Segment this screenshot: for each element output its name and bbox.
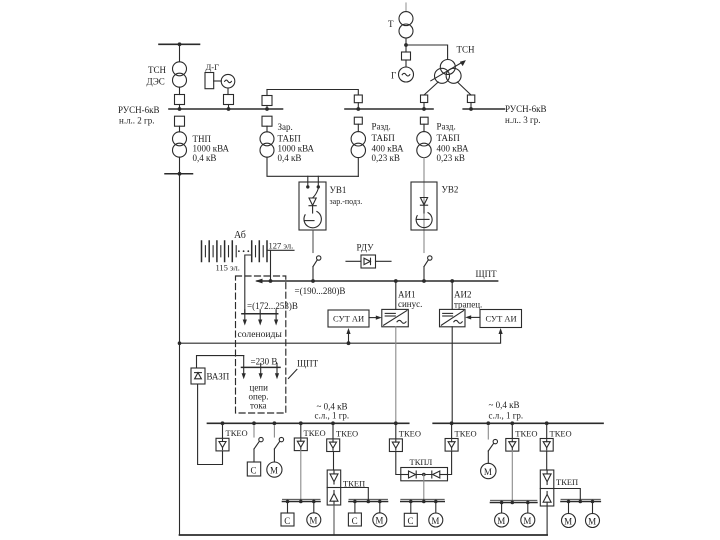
svg-text:ВАЗП: ВАЗП bbox=[207, 372, 230, 382]
svg-text:ТКЕО: ТКЕО bbox=[399, 429, 421, 439]
svg-text:0,23 кВ: 0,23 кВ bbox=[372, 153, 400, 163]
svg-text:УВ2: УВ2 bbox=[442, 185, 459, 195]
svg-text:Г: Г bbox=[391, 71, 396, 81]
thyristor contactor ТКЕО 6 bbox=[506, 423, 519, 451]
motor bus B bbox=[349, 499, 388, 503]
svg-text:С: С bbox=[352, 516, 358, 526]
svg-text:Т: Т bbox=[388, 19, 394, 29]
wire (faded) Разд2 to УВ2 bbox=[423, 158, 425, 253]
label Зар. ТАБП bbox=[278, 122, 315, 163]
svg-text:ТНП: ТНП bbox=[193, 134, 212, 144]
bus РУСН-6кВ section 3 (left segment) bbox=[345, 108, 433, 110]
motor М bbox=[568, 502, 570, 514]
thyristor contactor ТКЕО 1 bbox=[216, 423, 229, 451]
breaker (square) below bus, Разд.ТАБП 1 bbox=[354, 117, 362, 124]
svg-text:ТАБП: ТАБП bbox=[372, 133, 396, 143]
svg-text:УВ1: УВ1 bbox=[330, 185, 347, 195]
arrow into СУТ АИ 2 bbox=[499, 328, 503, 334]
wire bbox=[266, 90, 268, 96]
svg-text:М: М bbox=[270, 466, 278, 476]
junction left rail bbox=[178, 341, 182, 345]
svg-text:трапец.: трапец. bbox=[454, 300, 482, 310]
svg-text:с.л., 1 гр.: с.л., 1 гр. bbox=[315, 411, 350, 421]
disconnector switch УВ1 bbox=[313, 256, 321, 281]
junction bbox=[178, 172, 182, 176]
svg-text:ТКЕО: ТКЕО bbox=[304, 428, 326, 438]
wire bbox=[357, 158, 359, 177]
svg-text:ТАБП: ТАБП bbox=[278, 134, 302, 144]
junctions right bus bbox=[450, 421, 549, 425]
svg-text:ТКПЛ: ТКПЛ bbox=[410, 457, 433, 467]
svg-text:н.л.. 2 гр.: н.л.. 2 гр. bbox=[119, 116, 155, 126]
svg-text:~ 0,4 кВ: ~ 0,4 кВ bbox=[489, 400, 520, 410]
svg-text:С: С bbox=[408, 516, 414, 526]
switch + motor М feeder bbox=[274, 426, 283, 462]
wire АИ2 output to 0.4kV bus bbox=[451, 327, 453, 424]
bus 0,4 кВ left section bbox=[208, 422, 409, 424]
svg-text:ТКЕО: ТКЕО bbox=[550, 429, 572, 439]
svg-text:ТАБП: ТАБП bbox=[437, 133, 461, 143]
transformer Разд. ТАБП 2 bbox=[417, 132, 431, 158]
wire drops into УВ1 bbox=[307, 176, 309, 186]
wire bbox=[228, 105, 230, 110]
svg-text:Д-Г: Д-Г bbox=[206, 62, 220, 72]
DC bus ЩПТ =(190...280)В bbox=[255, 279, 498, 284]
diesel-generator Д-Г bbox=[205, 73, 235, 89]
thyristor contactor ТКЕО 2 bbox=[294, 423, 307, 450]
svg-text:Разд.: Разд. bbox=[437, 122, 456, 132]
motor bus C bbox=[401, 499, 444, 503]
ВАЗП feed wire bbox=[197, 356, 244, 368]
svg-text:ЩПТ: ЩПТ bbox=[476, 269, 498, 279]
svg-text:ТКЕП: ТКЕП bbox=[556, 477, 578, 487]
wire bbox=[423, 124, 425, 131]
svg-text:АИ2: АИ2 bbox=[454, 290, 472, 300]
svg-text:СУТ АИ: СУТ АИ bbox=[333, 314, 364, 324]
label 0,4 кВ right bbox=[489, 400, 524, 421]
thyristor contactor ТКЕО 7 bbox=[540, 423, 553, 451]
switch + contactor С feeder bbox=[254, 426, 263, 462]
generator Г bbox=[399, 67, 414, 82]
junction bbox=[347, 341, 351, 345]
svg-text:ДЭС: ДЭС bbox=[147, 77, 165, 87]
motor bus E bbox=[561, 499, 600, 503]
svg-text:с.л., 1 гр.: с.л., 1 гр. bbox=[489, 411, 524, 421]
bus РУСН-6кВ section 3 (right segment) bbox=[463, 108, 504, 110]
breaker (square) below bus, Зар.ТАБП bbox=[262, 116, 272, 126]
switch + motor М feeder right bus bbox=[488, 426, 497, 464]
svg-text:соленоиды: соленоиды bbox=[238, 329, 283, 340]
motor М bbox=[267, 462, 282, 477]
breaker (square) ТСН left bbox=[421, 95, 428, 103]
wire ТКЕО4 to ТКПЛ bbox=[396, 452, 401, 475]
thyristor contactor ТКЕП 2 bbox=[540, 470, 554, 506]
contactor С bbox=[247, 462, 260, 476]
transformer Зар. ТАБП 1000 кВА bbox=[260, 132, 274, 157]
motor М bbox=[481, 463, 496, 478]
thyristor contactor ТКЕО 3 bbox=[327, 423, 340, 451]
svg-text:н.л.. 3 гр.: н.л.. 3 гр. bbox=[505, 115, 541, 125]
svg-text:0,23 кВ: 0,23 кВ bbox=[437, 153, 465, 163]
svg-text:1000 кВА: 1000 кВА bbox=[278, 144, 315, 154]
wire bbox=[423, 103, 425, 110]
bottom return line bbox=[180, 534, 548, 536]
svg-text:М: М bbox=[484, 467, 492, 477]
svg-text:=(190...280)В: =(190...280)В bbox=[295, 286, 346, 296]
svg-text:400 кВА: 400 кВА bbox=[372, 143, 405, 153]
svg-text:М: М bbox=[497, 516, 505, 526]
junction bbox=[265, 107, 269, 111]
motor bus A bbox=[283, 499, 321, 503]
junction АИ1 bbox=[394, 279, 398, 283]
label РУСН-6кВ 3гр bbox=[505, 104, 547, 125]
svg-text:ТСН: ТСН bbox=[457, 45, 476, 55]
label ТСН ДЭС bbox=[147, 65, 167, 87]
node on top bus bbox=[178, 42, 182, 46]
wire bbox=[179, 126, 181, 132]
inverter АИ1 bbox=[382, 309, 409, 326]
svg-text:0,4 кВ: 0,4 кВ bbox=[193, 153, 217, 163]
junction АИ2 bbox=[450, 279, 454, 283]
controller СУТ АИ 2 bbox=[480, 310, 522, 328]
svg-text:ЩПТ: ЩПТ bbox=[297, 359, 319, 369]
svg-text:РУСН-6кВ: РУСН-6кВ bbox=[505, 104, 547, 114]
junction bbox=[227, 107, 231, 111]
wire bbox=[357, 124, 359, 131]
wire (faded) ТКПЛ to motor bus C bbox=[423, 475, 425, 501]
wire ТКЕО7 to ТКЕП2 bbox=[546, 451, 548, 470]
wire bbox=[227, 88, 229, 95]
pointer line bbox=[288, 369, 297, 378]
wire battery tap 115 cells bbox=[245, 255, 252, 314]
contactor С bbox=[410, 502, 412, 514]
svg-text:=(172...253)В: =(172...253)В bbox=[247, 301, 298, 311]
wire bbox=[405, 38, 407, 52]
svg-text:1000 кВА: 1000 кВА bbox=[193, 144, 230, 154]
svg-text:С: С bbox=[284, 516, 290, 526]
motor bus D bbox=[491, 500, 537, 504]
wire battery positive lead bbox=[267, 249, 294, 251]
svg-text:СУТ АИ: СУТ АИ bbox=[486, 314, 517, 324]
svg-text:127 эл.: 127 эл. bbox=[269, 241, 294, 251]
breaker (square) above bus, Зар.ТАБП bbox=[262, 96, 272, 106]
wire ТКЕО5 to ТКПЛ bbox=[448, 451, 452, 474]
label АИ1 синус. bbox=[398, 290, 422, 310]
svg-text:РУСН-6кВ: РУСН-6кВ bbox=[118, 105, 160, 115]
wire ТКЕП2 tap to motor bus E bbox=[554, 489, 581, 501]
wire left rail bbox=[179, 174, 181, 535]
wire АИ1 output (faded) to 0.4kV bus bbox=[395, 327, 397, 424]
wire bbox=[267, 157, 358, 176]
contactor С bbox=[287, 502, 289, 514]
bus РУСН-6кВ section 2 bbox=[169, 108, 283, 110]
motor М bbox=[527, 503, 529, 514]
tie contactor ТКПЛ bbox=[401, 468, 448, 481]
wire bbox=[179, 157, 181, 174]
disconnector switch УВ2 bbox=[424, 256, 432, 281]
junction bbox=[469, 107, 473, 111]
svg-text:115 эл.: 115 эл. bbox=[216, 263, 240, 273]
svg-text:Разд.: Разд. bbox=[372, 122, 391, 132]
svg-text:ТКЕО: ТКЕО bbox=[515, 429, 537, 439]
svg-text:ТКЕО: ТКЕО bbox=[336, 429, 358, 439]
wire to ТСН bbox=[406, 45, 448, 59]
rectifier УВ2 bbox=[411, 182, 437, 230]
wire diagonal right winding bbox=[457, 82, 471, 95]
label Разд. ТАБП 1 bbox=[372, 122, 405, 164]
svg-text:400 кВА: 400 кВА bbox=[437, 143, 470, 153]
junction battery bbox=[269, 279, 273, 283]
thyristor contactor ТКЕП 1 bbox=[327, 470, 341, 505]
wire ВАЗП loop to ТКЕО1 bbox=[198, 384, 223, 465]
wire DC to АИ2 bbox=[451, 281, 453, 309]
rectifier УВ1 bbox=[299, 182, 326, 230]
discharge device РДУ bbox=[346, 255, 391, 268]
wire with arrow into СУТ АИ 1 bbox=[348, 331, 350, 343]
solenoid feeder arrows bbox=[243, 310, 279, 326]
svg-text:М: М bbox=[375, 516, 383, 526]
controller СУТ АИ 1 bbox=[328, 310, 369, 327]
svg-text:ТКЕО: ТКЕО bbox=[226, 428, 248, 438]
svg-text:Зар.: Зар. bbox=[278, 122, 293, 132]
wire bbox=[312, 230, 314, 253]
breaker (square) generator Г bbox=[402, 52, 411, 60]
bus 0,4 кВ right section bbox=[433, 422, 603, 424]
svg-text:=230 В: =230 В bbox=[251, 357, 278, 367]
battery Аб bbox=[202, 241, 268, 262]
thyristor contactor ТКЕО 5 bbox=[445, 423, 458, 451]
motor М bbox=[501, 503, 503, 514]
label УВ1 bbox=[330, 185, 363, 206]
motor М bbox=[592, 502, 594, 514]
wire ТКЕП1 bottom tail bbox=[333, 505, 335, 535]
svg-text:АИ1: АИ1 bbox=[398, 290, 416, 300]
junction bbox=[356, 107, 360, 111]
label цепи опер. тока bbox=[249, 383, 269, 411]
arrow СУТ АИ2 to АИ2 bbox=[468, 316, 480, 318]
transformer ТСН ДЭС bbox=[173, 62, 187, 87]
0,4 кВ tap bus of ТНП bbox=[165, 173, 193, 175]
node bbox=[404, 43, 408, 47]
wire ТКЕП1 tap to motor bus B bbox=[341, 488, 369, 501]
svg-text:тока: тока bbox=[250, 401, 267, 411]
label ТНП bbox=[193, 134, 230, 163]
junction bbox=[422, 107, 426, 111]
svg-text:синус.: синус. bbox=[398, 299, 422, 309]
regulation arrow of ТСН bbox=[431, 60, 466, 81]
transformer Т (main) bbox=[405, 3, 407, 12]
label 0,4 кВ left bbox=[315, 402, 350, 421]
breaker (square) ТСН ДЭС bbox=[175, 95, 185, 105]
svg-text:М: М bbox=[309, 516, 317, 526]
wire bbox=[179, 44, 181, 61]
svg-text:С: С bbox=[251, 466, 257, 476]
breaker (square) above bus at x358 bbox=[354, 95, 362, 103]
contactor С bbox=[354, 502, 356, 514]
svg-text:зар.-подз.: зар.-подз. bbox=[330, 197, 363, 206]
label АИ2 трапец. bbox=[454, 290, 482, 310]
wire bbox=[266, 106, 268, 110]
svg-text:М: М bbox=[564, 516, 572, 526]
junction УВ2 bbox=[422, 279, 426, 283]
AC control line to СУТ boxes bbox=[180, 331, 501, 343]
thyristor contactor ТКЕО 4 bbox=[389, 423, 402, 451]
motor М bbox=[435, 502, 437, 514]
label Разд. ТАБП 2 bbox=[437, 122, 470, 164]
inverter АИ2 bbox=[440, 309, 466, 326]
wire diagonal left winding bbox=[424, 82, 438, 95]
transformer ТНП 1000 кВА bbox=[173, 132, 187, 157]
wire ТКЕО3 to ТКЕП1 bbox=[333, 452, 335, 471]
wire DC to АИ1 bbox=[395, 281, 397, 309]
arrow СУТ АИ1 to АИ1 bbox=[369, 317, 379, 319]
svg-text:Аб: Аб bbox=[234, 230, 246, 241]
svg-text:М: М bbox=[431, 516, 439, 526]
oper current feeder arrows bbox=[242, 356, 280, 380]
junction bbox=[178, 107, 182, 111]
svg-text:М: М bbox=[588, 516, 596, 526]
junctions left bus bbox=[221, 421, 398, 425]
svg-text:ТСН: ТСН bbox=[148, 65, 167, 75]
svg-text:РДУ: РДУ bbox=[357, 243, 375, 253]
wire bbox=[266, 126, 268, 132]
wire bbox=[179, 105, 181, 110]
device ВАЗП bbox=[191, 368, 205, 384]
wire ТКЕП2 bottom tail bbox=[546, 506, 548, 535]
wire bbox=[357, 103, 359, 109]
breaker (square) ТСН right bbox=[467, 95, 474, 103]
breaker (square) below bus, Разд.ТАБП 2 bbox=[420, 117, 428, 124]
breaker (square) Д-Г bbox=[224, 95, 234, 105]
junction УВ1 bbox=[311, 279, 315, 283]
wire bbox=[179, 87, 181, 94]
wire bbox=[405, 60, 407, 67]
wire bbox=[470, 103, 472, 110]
top bus (generator busbar) bbox=[159, 43, 200, 45]
breaker (square) below bus, ТНП feeder bbox=[175, 116, 185, 126]
svg-text:М: М bbox=[523, 516, 531, 526]
solenoid bus =(172...253)В bbox=[242, 313, 278, 315]
wire overhead link to 3rd section bbox=[267, 90, 358, 96]
transformer Разд. ТАБП 1 bbox=[351, 132, 365, 158]
motor М bbox=[313, 502, 315, 513]
label РУСН-6кВ 2гр bbox=[118, 105, 160, 126]
wire (faded) ТКЕО6 to motor bus D bbox=[511, 451, 513, 500]
wire (faded) ТКЕО2 to motor bus A bbox=[300, 451, 302, 500]
svg-text:0,4 кВ: 0,4 кВ bbox=[278, 153, 302, 163]
dashed cabinet box ЩПТ bbox=[236, 276, 286, 413]
transformer ТСН (three-winding with regulation arrow) bbox=[435, 60, 462, 84]
svg-text:ТКЕО: ТКЕО bbox=[455, 429, 477, 439]
motor М bbox=[379, 502, 381, 513]
oper current bus =230 В bbox=[242, 366, 281, 368]
